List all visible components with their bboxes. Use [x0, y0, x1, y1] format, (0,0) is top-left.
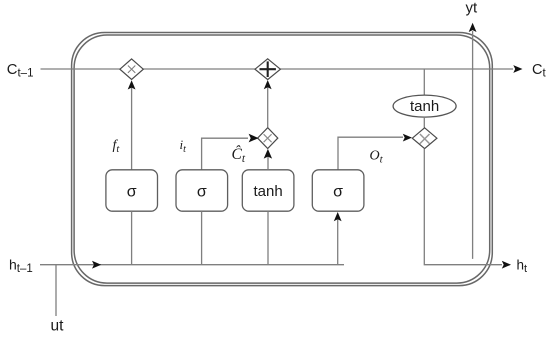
- wire yt output: [472, 31, 474, 259]
- wire tanh box down to h line: [267, 211, 269, 265]
- arrowhead into candidate multiply: [264, 149, 272, 159]
- wire tanh box up to candidate multiply: [267, 157, 269, 170]
- svg-text:ut: ut: [51, 318, 65, 335]
- arrowhead yt: [469, 23, 477, 32]
- arrowhead ht output: [502, 261, 511, 269]
- svg-text:σ: σ: [127, 184, 137, 201]
- wire candidate multiply up into plus node: [267, 87, 269, 128]
- arrowhead into forget multiply: [128, 80, 136, 89]
- wire cell-state line Ct-1 to Ct: [41, 68, 514, 70]
- gate box sigma 1 (forget gate): [106, 170, 158, 211]
- gate box sigma 2 (input gate): [176, 170, 228, 211]
- arrowhead into plus node: [264, 80, 272, 89]
- svg-text:σ: σ: [333, 184, 343, 201]
- svg-text:tanh: tanh: [253, 183, 282, 200]
- svg-text:σ: σ: [197, 184, 207, 201]
- multiply node (output gate) right diamond: [412, 128, 437, 149]
- add node plus diamond on C line: [255, 59, 280, 80]
- arrowhead into candidate multiply left vertex: [249, 134, 259, 143]
- arrowhead into output multiply: [403, 134, 412, 142]
- svg-text:yt: yt: [466, 0, 479, 17]
- wire sigma1 down to h line: [131, 211, 133, 265]
- wire hidden-state line ht-1: [40, 264, 344, 266]
- arrowhead into sigma4: [334, 212, 342, 221]
- gate box tanh (candidate): [242, 170, 294, 211]
- multiply node (candidate) center diamond: [258, 128, 278, 149]
- multiply node (forget gate) left diamond on C line: [120, 59, 143, 80]
- wire sigma4 to output multiply: [338, 137, 403, 170]
- arrowhead Ct output: [513, 65, 522, 73]
- wire h line up into sigma4: [337, 219, 339, 265]
- wire sigma1 up into forget multiply: [131, 87, 133, 170]
- wire ut input: [55, 265, 57, 316]
- svg-text:tanh: tanh: [410, 98, 439, 115]
- wire ellipse to output gate multiply: [423, 117, 425, 128]
- wire from C line down to tanh ellipse: [423, 69, 425, 95]
- outer cell border (double rounded rectangle): [72, 33, 493, 286]
- arrowhead on h line near entry: [92, 261, 101, 269]
- wire from output multiply down and right to ht: [424, 149, 502, 265]
- wire sigma2 up and right into candidate multiply: [202, 138, 248, 170]
- gate box sigma 4 (output gate): [312, 170, 364, 211]
- activation tanh ellipse: [393, 95, 456, 117]
- wire sigma2 down to h line: [201, 211, 203, 265]
